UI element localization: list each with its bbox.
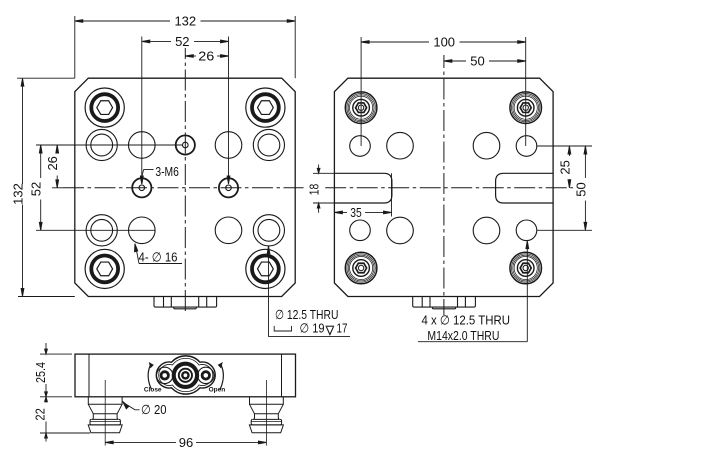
knurled knob top-right bbox=[510, 92, 542, 124]
clamp knob front view bbox=[156, 356, 215, 394]
svg-text:∅ 20: ∅ 20 bbox=[141, 402, 167, 417]
hex socket screw top-right bbox=[246, 88, 285, 127]
O16 hole bottom-left bbox=[129, 217, 156, 244]
dimension 96 horizontal bbox=[105, 435, 266, 450]
svg-text:50: 50 bbox=[573, 182, 588, 196]
svg-text:17: 17 bbox=[337, 321, 348, 336]
svg-text:18: 18 bbox=[307, 184, 322, 196]
depth symbol bbox=[326, 325, 335, 327]
O16 hole top-left bbox=[129, 132, 156, 159]
counterbore hole bottom-right bbox=[253, 215, 284, 246]
dimension 35 horizontal bbox=[334, 173, 391, 220]
svg-text:Close: Close bbox=[144, 386, 162, 393]
svg-text:M14x2.0 THRU: M14x2.0 THRU bbox=[427, 328, 499, 343]
counterbore hole top-right bbox=[253, 129, 284, 160]
leader counterbore note left plate bbox=[267, 246, 350, 337]
right plate outline bbox=[334, 78, 553, 296]
left slot bbox=[334, 173, 392, 203]
label O20 with leader bbox=[123, 401, 167, 417]
O16 hole top-left right plate bbox=[387, 132, 414, 159]
open arrow bbox=[218, 362, 224, 390]
O12.5 hole bottom-right right plate bbox=[516, 220, 537, 241]
O16 hole bottom-right bbox=[215, 217, 242, 244]
dimension 26 vertical left bbox=[45, 145, 63, 188]
dimension 132 vertical left bbox=[11, 78, 75, 296]
knurled knob bottom-left bbox=[345, 252, 377, 284]
O16 hole bottom-left right plate bbox=[387, 217, 414, 244]
left foot bbox=[88, 380, 122, 446]
left plate bottom tab bbox=[154, 297, 217, 309]
svg-text:26: 26 bbox=[45, 156, 60, 170]
counterbore symbol bbox=[274, 326, 291, 331]
dimension 26 horizontal bbox=[185, 49, 228, 64]
dimension 25.4 vertical bbox=[33, 343, 72, 403]
label 3-M6 with leader bbox=[140, 164, 179, 184]
right plate horizontal centerline bbox=[325, 187, 573, 189]
svg-text:52: 52 bbox=[175, 34, 189, 49]
knurled knob bottom-right bbox=[510, 252, 542, 284]
O12.5 hole bottom-left right plate bbox=[350, 220, 371, 241]
hex socket screw bottom-right bbox=[246, 249, 285, 288]
left plate horizontal centerline bbox=[63, 187, 304, 189]
O12.5 hole top-right right plate bbox=[516, 136, 537, 157]
svg-text:Open: Open bbox=[209, 387, 226, 394]
dimension 52 horizontal bbox=[140, 34, 230, 184]
O16 hole bottom-right right plate bbox=[473, 217, 500, 244]
svg-text:132: 132 bbox=[11, 183, 26, 205]
svg-text:3-M6: 3-M6 bbox=[155, 164, 179, 179]
svg-text:100: 100 bbox=[433, 35, 455, 50]
svg-text:4- ∅ 16: 4- ∅ 16 bbox=[139, 250, 178, 265]
dimension 132 horizontal top bbox=[75, 14, 295, 79]
svg-text:96: 96 bbox=[179, 435, 193, 450]
hex socket screw top-left bbox=[85, 88, 124, 127]
counterbore hole top-left bbox=[86, 129, 117, 160]
dimension 100 horizontal bbox=[361, 35, 526, 146]
O12.5 hole top-left right plate bbox=[350, 136, 371, 157]
svg-text:∅ 19: ∅ 19 bbox=[300, 321, 325, 336]
M6 hole mid-right bbox=[219, 178, 238, 197]
svg-text:22: 22 bbox=[32, 408, 47, 421]
knurled knob top-left bbox=[345, 92, 377, 124]
O16 hole top-right bbox=[215, 132, 242, 159]
svg-text:4 x ∅ 12.5 THRU: 4 x ∅ 12.5 THRU bbox=[422, 313, 511, 328]
svg-text:26: 26 bbox=[198, 49, 214, 64]
svg-text:132: 132 bbox=[174, 14, 196, 29]
right foot bbox=[249, 380, 283, 446]
dimension 22 vertical bbox=[32, 392, 90, 442]
label 4- O16 with leader bbox=[135, 244, 183, 265]
right plate bottom tab bbox=[413, 297, 476, 309]
dimension 52 vertical left bbox=[29, 145, 183, 230]
dimension 18 vertical bbox=[307, 165, 335, 213]
svg-text:25.4: 25.4 bbox=[33, 362, 48, 383]
M6 hole top-center bbox=[176, 135, 195, 154]
svg-text:50: 50 bbox=[470, 54, 484, 69]
left plate outline bbox=[75, 78, 295, 296]
side view body bbox=[75, 354, 296, 397]
svg-text:52: 52 bbox=[29, 182, 44, 196]
O16 hole top-right right plate bbox=[473, 132, 500, 159]
right plate vertical centerline bbox=[443, 55, 445, 315]
left plate vertical centerline bbox=[184, 48, 186, 315]
dimension 50 vertical bbox=[537, 146, 592, 230]
dimension 25 vertical bbox=[537, 146, 592, 188]
counterbore hole bottom-left bbox=[86, 215, 117, 246]
hex socket screw bottom-left bbox=[85, 249, 124, 288]
svg-text:25: 25 bbox=[557, 160, 572, 174]
close arrow bbox=[148, 362, 154, 390]
right slot bbox=[496, 173, 553, 203]
M6 hole mid-left bbox=[132, 178, 151, 197]
leader thread note right plate bbox=[418, 241, 529, 343]
dimension 50 horizontal bbox=[444, 54, 526, 69]
svg-text:35: 35 bbox=[350, 205, 362, 220]
